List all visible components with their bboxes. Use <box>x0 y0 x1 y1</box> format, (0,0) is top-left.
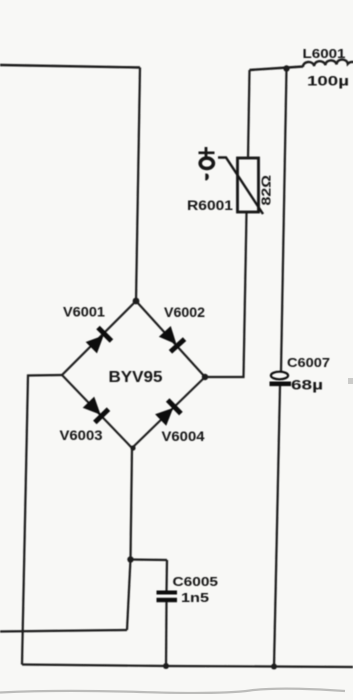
capacitor C6005 <box>157 591 178 603</box>
svg-text:V6002: V6002 <box>164 305 205 320</box>
wire bridge top feed vertical <box>136 68 140 302</box>
wire C6005 branch horizontal <box>131 558 168 561</box>
wire R6001 top lead <box>248 70 250 158</box>
capacitor C6007 electrolytic <box>270 372 292 386</box>
svg-text:V6004: V6004 <box>162 429 206 444</box>
svg-text:1n5: 1n5 <box>181 590 209 605</box>
wire C6005 bottom lead <box>165 602 168 666</box>
scan artifact right edge speck <box>348 378 353 384</box>
svg-text:L6001: L6001 <box>303 46 346 61</box>
svg-text:V6003: V6003 <box>60 428 104 443</box>
wire bottom rail horizontal <box>22 665 353 668</box>
svg-text:C6007: C6007 <box>287 355 330 370</box>
svg-text:V6001: V6001 <box>63 305 106 320</box>
wire bridge arm top-left <box>62 301 136 375</box>
node bridge bottom corner <box>130 445 135 450</box>
diode V6003 <box>82 396 111 425</box>
wire bridge bottom corner down <box>127 448 132 630</box>
diode V6004 <box>154 398 183 427</box>
resistor R6001 body <box>238 158 259 212</box>
node bridge top corner <box>133 298 140 305</box>
label -t° NTC marking <box>199 147 215 181</box>
node bridge right corner <box>202 374 208 380</box>
diode V6002 <box>158 325 187 354</box>
svg-text:68µ: 68µ <box>291 378 323 393</box>
svg-text:82Ω: 82Ω <box>259 175 274 206</box>
node junction C6005 branch <box>127 556 133 562</box>
node C6005 to bottom rail <box>163 663 169 669</box>
resistor R6001 NTC diagonal stroke <box>218 158 263 215</box>
wire right rail down to C6007 <box>281 69 287 372</box>
node top junction to C6007 rail <box>283 65 289 71</box>
svg-text:R6001: R6001 <box>187 198 234 213</box>
wire top-left AC input horizontal <box>0 65 140 68</box>
svg-text:100µ: 100µ <box>307 74 349 89</box>
wire bridge arm top-right <box>136 301 205 377</box>
wire bridge arm bottom-right <box>132 377 205 448</box>
wire bridge arm bottom-left <box>62 375 132 448</box>
node right rail to bottom rail <box>271 664 277 670</box>
svg-text:C6005: C6005 <box>173 574 219 589</box>
wire bridge left corner to bottom rail <box>22 375 62 665</box>
svg-text:BYV95: BYV95 <box>109 369 163 386</box>
scan artifact bottom page edge <box>0 689 345 693</box>
wire bridge right corner to R6001 <box>205 213 247 377</box>
inductor L6001 coil <box>303 60 353 67</box>
diode V6001 <box>85 326 114 355</box>
wire top-right horizontal to L6001 <box>250 67 304 71</box>
wire right rail below C6007 <box>274 386 280 667</box>
wire C6005 top lead <box>165 560 168 591</box>
wire bottom-left AC return horizontal <box>0 630 127 632</box>
